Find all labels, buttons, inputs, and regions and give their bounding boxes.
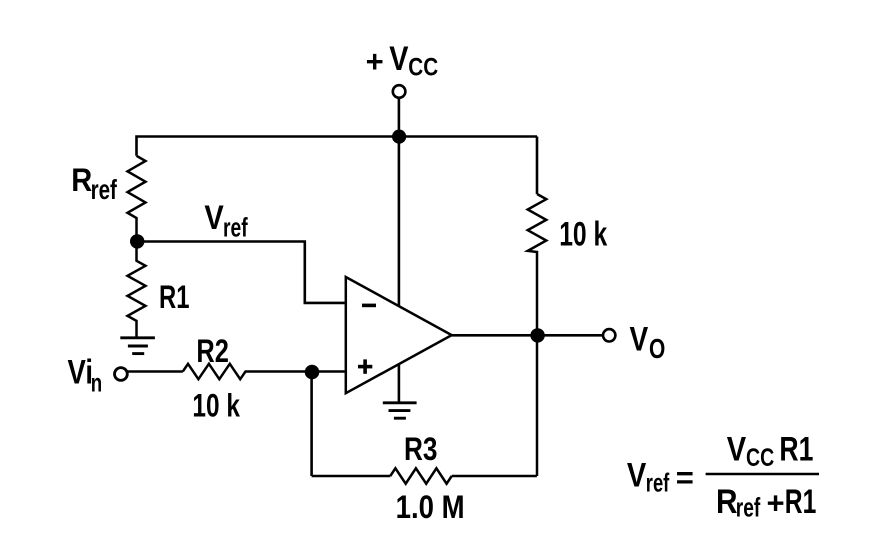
svg-text:n: n [91, 367, 102, 397]
resistor R1 [128, 241, 146, 338]
wire: Vref node to inverting input [137, 242, 345, 303]
ground (below R1) [120, 338, 155, 354]
svg-text:R3: R3 [404, 431, 438, 467]
resistor R2 [183, 364, 345, 379]
node B (non-inverting node) [305, 365, 320, 380]
svg-text:ref: ref [736, 493, 761, 523]
resistor 10 k (right) [528, 194, 547, 476]
svg-text:Vi: Vi [68, 354, 94, 392]
svg-text:V: V [727, 430, 747, 468]
wire: feedback bottom rail (right of R3) [452, 475, 537, 478]
svg-text:R: R [71, 162, 92, 198]
svg-text:V: V [627, 456, 647, 494]
svg-text:V: V [630, 320, 649, 358]
svg-text:1.0 M: 1.0 M [396, 489, 465, 525]
svg-text:R: R [716, 483, 738, 521]
wire: Vcc drop to op-amp [398, 98, 401, 306]
svg-text:V: V [204, 199, 224, 237]
node A (Vref node) [130, 234, 144, 248]
svg-text:O: O [649, 333, 665, 364]
node: output junction [530, 328, 544, 342]
op-amp non-inverting pin label + [358, 365, 372, 369]
fraction bar [706, 473, 819, 476]
op-amp U1 [346, 277, 452, 393]
op-amp inverting pin label - [362, 304, 376, 308]
svg-text:+: + [767, 485, 785, 520]
svg-text:10 k: 10 k [192, 388, 240, 424]
wire: Vin lead [128, 370, 183, 373]
wire: op-amp ground lead [398, 362, 401, 403]
svg-text:R2: R2 [196, 333, 229, 369]
node: Vcc junction on rail [392, 130, 406, 144]
terminal Vin [115, 368, 128, 381]
svg-text:V: V [389, 40, 408, 78]
terminal Vo [603, 329, 615, 341]
svg-text:CC: CC [746, 444, 774, 472]
svg-text:R1: R1 [779, 430, 813, 468]
svg-text:=: = [676, 460, 694, 495]
ground (op-amp) [383, 403, 417, 418]
resistor R3 [390, 468, 451, 483]
formula: Vref = Vcc R1 / (Rref + R1) [627, 430, 819, 522]
wire: output [452, 334, 603, 337]
svg-text:+: + [366, 44, 384, 79]
svg-text:10 k: 10 k [559, 215, 607, 253]
wire: right branch down from rail [536, 137, 539, 195]
svg-text:R1: R1 [785, 483, 817, 521]
wire: feedback bottom rail (left of R3) [312, 475, 391, 478]
terminal +Vcc [393, 85, 406, 98]
wire: top supply rail [137, 137, 538, 156]
svg-text:ref: ref [646, 468, 670, 498]
wire: node B down to feedback rail [310, 372, 313, 477]
svg-text:R1: R1 [159, 279, 190, 315]
svg-text:ref: ref [223, 213, 248, 243]
svg-text:CC: CC [408, 54, 438, 82]
resistor Rref [128, 156, 146, 242]
svg-text:ref: ref [91, 174, 118, 205]
